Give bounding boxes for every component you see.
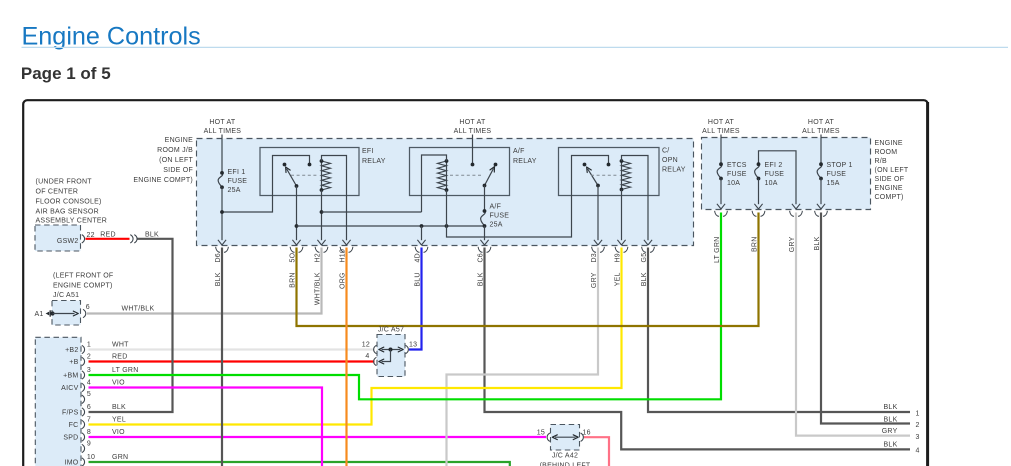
svg-text:13: 13 <box>409 341 417 348</box>
svg-text:+B: +B <box>69 359 78 366</box>
connector J/C A57 pin 4 <box>374 357 377 365</box>
wire WHT from ECM pin 1 to J/C A57 pin 12 <box>89 348 375 350</box>
fuse EFI 1 FUSE 25A <box>218 171 224 189</box>
wire GRN from ECM IMO pin 10 <box>89 462 510 466</box>
connector 5O at J/B bottom edge <box>290 240 303 253</box>
pin label 5O <box>290 252 297 262</box>
svg-text:1: 1 <box>87 341 91 348</box>
svg-text:GSW2: GSW2 <box>57 238 79 245</box>
label C/OPN RELAY <box>662 148 686 174</box>
terminal symbol A1 <box>46 310 51 316</box>
actuation dashed link EFI relay <box>291 174 319 176</box>
svg-text:7: 7 <box>87 416 91 423</box>
wire color label BLK (D6) <box>215 272 222 286</box>
svg-text:+BM: +BM <box>63 373 78 380</box>
svg-text:R/B: R/B <box>875 158 888 165</box>
connector J/C A42 pin 16 <box>581 433 584 441</box>
svg-text:HOT AT: HOT AT <box>708 119 735 126</box>
svg-text:WHT/BLK: WHT/BLK <box>122 306 155 313</box>
internal bus J/C A42 pins 15-16 <box>552 435 578 440</box>
wire ETCS fuse feed <box>720 135 722 165</box>
label J/C A57 <box>378 327 404 334</box>
svg-text:A/F: A/F <box>490 204 502 211</box>
svg-text:Engine Controls: Engine Controls <box>22 22 201 50</box>
svg-text:Page 1 of 5: Page 1 of 5 <box>21 64 111 83</box>
pin number 6 <box>86 304 90 311</box>
label HOT AT ALL TIMES (ETCS fuse) <box>702 119 740 135</box>
label BLK right exit 1 <box>884 404 898 411</box>
pin number 16 <box>583 429 591 436</box>
ECM pin 3 +BM <box>63 367 138 380</box>
title underline rule <box>22 46 1009 48</box>
wire RED from GSW2 <box>86 238 130 240</box>
connector J/C A42 pin 15 <box>547 433 550 441</box>
pin number 22 <box>87 232 95 239</box>
wire RED from ECM pin 2 to J/C A57 pin 4 <box>89 360 375 362</box>
pin label D6 <box>215 253 222 262</box>
svg-text:15: 15 <box>537 429 545 436</box>
svg-text:OF CENTER: OF CENTER <box>36 189 79 196</box>
svg-text:ENGINE COMPT): ENGINE COMPT) <box>133 177 193 184</box>
pin number 15 <box>537 429 545 436</box>
label (UNDER FRONT OF CENTER FLOOR CONSOLE) AIR BAG SENSOR ASSEMBLY CENTER <box>36 179 108 225</box>
wire A/F relay switch common to A/F fuse <box>484 186 486 212</box>
connector BLK at R/B bottom edge <box>815 204 828 217</box>
svg-text:IMO: IMO <box>65 460 79 466</box>
air bag sensor box GSW2 (dashed) <box>35 225 81 251</box>
svg-text:GRY: GRY <box>882 428 898 435</box>
svg-text:4: 4 <box>916 448 920 455</box>
pin label H10 <box>340 249 347 263</box>
wire EFI relay coil bottom to H2 drop <box>320 190 324 240</box>
junction connector J/C A42 (dashed box) <box>551 425 580 451</box>
svg-text:(ON LEFT: (ON LEFT <box>159 157 193 164</box>
svg-text:FUSE: FUSE <box>765 171 785 178</box>
node dot J/C A51 <box>50 311 54 315</box>
wire YEL from H9 to ECM FC pin 7 <box>89 248 622 425</box>
ECM pin 2 +B <box>69 353 127 366</box>
svg-text:8: 8 <box>87 429 91 436</box>
label J/C A42 <box>552 453 578 460</box>
svg-text:(ON LEFT: (ON LEFT <box>875 167 909 174</box>
svg-text:BLK: BLK <box>884 404 898 411</box>
svg-text:4: 4 <box>87 379 91 386</box>
pin label G5 <box>641 253 648 263</box>
connector H10 at J/B bottom edge <box>340 240 353 253</box>
wire BLK from STOP 1 fuse to right exit 2 <box>821 213 910 424</box>
wire BLU from 4D to J/C A57 pin 13 <box>409 248 422 350</box>
svg-text:10A: 10A <box>765 180 778 187</box>
ECM pin 7 FC <box>69 416 126 429</box>
connector C6 at J/B bottom edge <box>478 240 491 253</box>
svg-text:BLK: BLK <box>145 232 159 239</box>
wire ORG from H10 down <box>345 248 347 466</box>
svg-text:12: 12 <box>362 341 370 348</box>
switch arm EFI relay <box>286 167 297 186</box>
svg-text:VIO: VIO <box>112 379 125 386</box>
svg-text:BLK: BLK <box>884 441 898 448</box>
switch arm C/OPN relay <box>587 167 598 186</box>
ECM pin 8 SPD <box>63 429 125 442</box>
junction connector J/C A51 (dashed box) <box>52 301 81 326</box>
wire VIO from ECM AICV pin 4 <box>89 388 323 466</box>
svg-text:4: 4 <box>365 353 369 360</box>
svg-text:ENGINE COMPT): ENGINE COMPT) <box>53 282 113 289</box>
svg-text:VIO: VIO <box>112 429 125 436</box>
wire PNK from J/C A42 pin 16 <box>584 437 609 466</box>
relay box EFI RELAY <box>260 148 359 196</box>
svg-text:HOT AT: HOT AT <box>808 119 835 126</box>
svg-text:ROOM J/B: ROOM J/B <box>157 147 193 154</box>
fuse STOP 1 FUSE 15A <box>817 162 823 204</box>
label GSW2 <box>57 238 79 245</box>
wire VIO from ECM SPD pin 8 to J/C A42 pin 15 <box>89 436 547 438</box>
svg-text:HOT AT: HOT AT <box>459 119 486 126</box>
connector GSW2 pin 22 <box>82 235 85 243</box>
internal arrow J/C A51 <box>53 311 79 316</box>
ECM pin 6 F/PS <box>62 404 126 417</box>
wire LT GRN from ETCS fuse to ECM +BM pin 3 <box>89 213 722 400</box>
label HOT AT ALL TIMES (A/F relay) <box>454 119 492 135</box>
svg-text:5: 5 <box>87 391 91 398</box>
relay block ENGINE ROOM R/B (dashed box) <box>702 138 871 210</box>
svg-text:3: 3 <box>916 434 920 441</box>
connector D6 at J/B bottom edge <box>216 240 229 253</box>
pin number 13 <box>409 341 417 348</box>
label ENGINE ROOM J/B (ON LEFT SIDE OF ENGINE COMPT) <box>133 137 193 184</box>
svg-text:COMPT): COMPT) <box>875 194 904 201</box>
svg-text:6: 6 <box>86 304 90 311</box>
svg-text:RED: RED <box>100 232 116 239</box>
svg-text:ROOM: ROOM <box>875 149 898 156</box>
contact pivot dot EFI relay <box>283 163 287 167</box>
wire color label ORG (H10) <box>340 272 347 289</box>
junction block ENGINE ROOM J/B (dashed box) <box>197 139 694 246</box>
diagram panel frame <box>23 100 928 466</box>
label EFI 1 FUSE 25A <box>228 169 248 194</box>
connector 4D at J/B bottom edge <box>415 240 428 253</box>
net wire EFI switch common rail <box>297 224 485 228</box>
wire A/F relay coil bottom to C/OPN relay feed <box>447 156 611 238</box>
svg-text:LT GRN: LT GRN <box>112 367 139 374</box>
wire color label GRY (D3) <box>591 272 598 288</box>
wire color label YEL (H9) <box>615 272 622 286</box>
wire BLK from D6 down <box>221 248 223 466</box>
svg-text:EFI: EFI <box>362 148 374 155</box>
wire color label LT GRN (R/B) <box>714 237 721 264</box>
junction connector J/C A57 (dashed box) <box>377 335 405 377</box>
connector D3 at J/B bottom edge <box>592 240 605 253</box>
svg-text:A1: A1 <box>34 311 43 318</box>
svg-text:ENGINE: ENGINE <box>875 185 903 192</box>
ECM pin 4 AICV <box>61 379 125 392</box>
connector H9 at J/B bottom edge <box>615 240 628 253</box>
svg-text:FC: FC <box>69 422 79 429</box>
pin label C6 <box>478 253 485 262</box>
wire color label WHT/BLK (H2) <box>315 272 322 305</box>
svg-text:FUSE: FUSE <box>827 171 847 178</box>
label ENGINE ROOM R/B (ON LEFT SIDE OF ENGINE COMPT) <box>875 140 909 201</box>
coil A/F relay <box>438 159 449 192</box>
svg-text:15A: 15A <box>827 180 840 187</box>
svg-text:3: 3 <box>87 367 91 374</box>
pin label 4D <box>415 253 422 262</box>
svg-text:J/C A51: J/C A51 <box>53 292 79 299</box>
svg-text:SIDE OF: SIDE OF <box>875 176 905 183</box>
label A1 <box>34 311 43 318</box>
svg-text:ASSEMBLY CENTER: ASSEMBLY CENTER <box>36 218 108 225</box>
ECM pin 10 IMO <box>65 454 129 466</box>
pin number 4 <box>365 353 369 360</box>
svg-text:RELAY: RELAY <box>362 158 386 165</box>
connector J/C A57 pin 12 <box>374 345 377 353</box>
wire WHT/BLK from H2 to J/C A51 <box>87 248 322 314</box>
svg-text:6: 6 <box>87 404 91 411</box>
label WHT/BLK <box>122 306 155 313</box>
svg-text:C/: C/ <box>662 148 670 155</box>
splice connector on GSW2 wire <box>130 235 137 243</box>
svg-text:10: 10 <box>87 454 95 461</box>
svg-text:+B2: +B2 <box>65 347 78 354</box>
label BLK (GSW2 wire) <box>145 232 159 239</box>
svg-text:AIR BAG SENSOR: AIR BAG SENSOR <box>36 209 99 216</box>
switch common dot EFI relay <box>295 184 299 188</box>
svg-text:OPN: OPN <box>662 157 678 164</box>
wire C/OPN relay coil bottom to H9 drop <box>621 190 623 241</box>
wire BRN from 5O to EFI 2 fuse <box>297 213 759 327</box>
node number 3 right exit <box>916 434 920 441</box>
wire BLK from G5 to right exit 1 <box>648 248 910 413</box>
svg-text:YEL: YEL <box>112 416 126 423</box>
label HOT AT ALL TIMES (STOP 1 fuse) <box>802 119 840 135</box>
ECM pin 1 +B2 <box>65 341 129 354</box>
svg-text:ENGINE: ENGINE <box>165 137 193 144</box>
wire color label GRY (R/B) <box>789 236 796 252</box>
subtitle Page 1 of 5 <box>21 64 111 83</box>
svg-text:EFI 1: EFI 1 <box>228 169 246 176</box>
relay box A/F RELAY <box>410 148 510 196</box>
connector BRN at R/B bottom edge <box>752 204 765 217</box>
svg-text:SPD: SPD <box>63 435 78 442</box>
svg-text:FUSE: FUSE <box>490 213 510 220</box>
svg-text:ETCS: ETCS <box>727 162 747 169</box>
label (BEHIND LEFT <box>540 463 591 466</box>
connector GRY at R/B bottom edge <box>790 204 803 217</box>
wire color label BRN (R/B) <box>752 237 759 253</box>
internal bus J/C A57 pins 12-13 <box>379 347 403 352</box>
svg-text:HOT AT: HOT AT <box>209 119 236 126</box>
label STOP 1 FUSE 15A <box>827 162 853 187</box>
label ETCS FUSE 10A <box>727 162 747 187</box>
connector G5 at J/B bottom edge <box>642 240 655 253</box>
pin number 12 <box>362 341 370 348</box>
label GRY right exit 3 <box>882 428 898 435</box>
contact dot A/F relay <box>494 163 498 167</box>
pin label H2 <box>315 253 322 262</box>
fuse EFI 2 FUSE 10A <box>755 162 761 204</box>
label EFI 2 FUSE 10A <box>765 162 785 187</box>
title Engine Controls <box>22 22 201 50</box>
label BLK right exit 2 <box>884 416 898 423</box>
wire color label BLK (C6) <box>478 272 485 286</box>
coil EFI relay <box>320 159 331 192</box>
svg-text:RED: RED <box>112 353 128 360</box>
svg-text:AICV: AICV <box>61 385 78 392</box>
contact pivot dot C/OPN relay <box>583 163 587 167</box>
connector H2 at J/B bottom edge <box>315 240 328 253</box>
svg-text:ALL TIMES: ALL TIMES <box>204 128 242 135</box>
svg-text:RELAY: RELAY <box>513 158 537 165</box>
actuation dashed link A/F relay <box>450 174 481 176</box>
svg-text:FUSE: FUSE <box>228 178 248 185</box>
wire color label BLK (R/B) <box>814 236 821 250</box>
wire BLK from C6 to right exit 4 <box>485 248 911 450</box>
switch common dot A/F relay <box>483 184 487 188</box>
label A/F RELAY <box>513 148 537 165</box>
wire color label BLK (G5) <box>641 272 648 286</box>
coil C/OPN relay <box>620 159 631 191</box>
relay box C/OPN RELAY <box>559 148 660 196</box>
svg-text:(BEHIND LEFT: (BEHIND LEFT <box>540 463 591 466</box>
pin label H9 <box>615 253 622 262</box>
label RED <box>100 232 116 239</box>
svg-text:FUSE: FUSE <box>727 171 747 178</box>
wire STOP 1 fuse feed <box>820 135 822 165</box>
wire EFI relay coil top to H10 drop <box>322 156 347 241</box>
pin label D3 <box>591 253 598 262</box>
label J/C A51 <box>53 292 79 299</box>
ECM connector box (dashed) <box>35 337 81 466</box>
svg-text:WHT: WHT <box>112 341 129 348</box>
svg-text:16: 16 <box>583 429 591 436</box>
actuation dashed link C/OPN relay <box>591 174 619 176</box>
svg-text:25A: 25A <box>490 222 503 229</box>
wire EFI 2 fuse bridge to GRY drop <box>759 151 797 204</box>
label (LEFT FRONT OF ENGINE COMPT) <box>53 273 113 290</box>
fuse A/F FUSE 25A <box>481 209 487 240</box>
svg-text:SIDE OF: SIDE OF <box>163 167 193 174</box>
svg-text:FLOOR CONSOLE): FLOOR CONSOLE) <box>36 199 102 206</box>
label EFI RELAY <box>362 148 386 165</box>
ECM pin 5 <box>82 391 91 403</box>
node number 2 right exit <box>916 422 920 429</box>
svg-text:10A: 10A <box>727 180 740 187</box>
wire EFI relay switch common to 5O drop <box>295 186 299 240</box>
svg-text:9: 9 <box>87 440 91 447</box>
svg-text:J/C A57: J/C A57 <box>378 327 404 334</box>
wire EFI 1 fuse to D6 drop <box>220 187 224 240</box>
svg-text:25A: 25A <box>228 187 241 194</box>
wire GRY from R/B to right exit 3 <box>796 213 910 436</box>
svg-text:ALL TIMES: ALL TIMES <box>454 128 492 135</box>
wire C/OPN relay coil top to G5 drop <box>622 156 649 241</box>
fuse ETCS FUSE 10A <box>717 162 723 204</box>
connector J/C A51 pin 6 <box>83 309 86 317</box>
svg-text:BLK: BLK <box>884 416 898 423</box>
svg-text:ALL TIMES: ALL TIMES <box>702 128 740 135</box>
internal branch J/C A57 pin 4 <box>379 350 391 364</box>
switch arm A/F relay <box>485 167 495 186</box>
wire color label BRN (5O) <box>290 272 297 288</box>
svg-text:EFI 2: EFI 2 <box>765 162 783 169</box>
wire EFI relay switch feed (from EFI 1 fuse junction up into relay) <box>222 156 311 213</box>
label A/F FUSE 25A <box>490 204 510 229</box>
svg-text:(UNDER FRONT: (UNDER FRONT <box>36 179 93 186</box>
wire GRY from D3 down <box>447 248 599 466</box>
svg-text:ALL TIMES: ALL TIMES <box>802 128 840 135</box>
svg-text:(LEFT FRONT OF: (LEFT FRONT OF <box>53 273 113 280</box>
label HOT AT ALL TIMES (EFI 1 fuse) <box>204 119 242 135</box>
wire 4D tap from common rail <box>421 226 423 240</box>
connector J/C A57 pin 13 <box>406 345 409 353</box>
wire HOT AT ALL TIMES feed into A/F relay <box>471 135 475 167</box>
svg-text:A/F: A/F <box>513 148 525 155</box>
svg-text:2: 2 <box>87 353 91 360</box>
wire A/F relay coil top to net from EFI coil <box>422 155 447 212</box>
svg-text:GRN: GRN <box>112 454 128 461</box>
wire color label BLU (4D) <box>415 272 422 286</box>
switch common dot C/OPN relay <box>596 184 600 188</box>
svg-text:2: 2 <box>916 422 920 429</box>
svg-text:J/C A42: J/C A42 <box>552 453 578 460</box>
wire EFI 1 fuse feed from HOT AT ALL TIMES <box>221 135 223 173</box>
net wire from EFI coil bottom to A/F relay <box>322 211 422 213</box>
wire C/OPN relay switch common to D3 drop <box>597 186 599 241</box>
svg-text:1: 1 <box>916 410 920 417</box>
wire BLK from GSW2 splice to ECM F/PS pin 6 <box>89 239 173 412</box>
connector LT GRN at R/B bottom edge <box>715 204 728 217</box>
node number 4 right exit <box>916 448 920 455</box>
svg-text:ENGINE: ENGINE <box>875 140 903 147</box>
svg-text:F/PS: F/PS <box>62 410 79 417</box>
svg-text:RELAY: RELAY <box>662 167 686 174</box>
label BLK right exit 4 <box>884 441 898 448</box>
svg-text:STOP 1: STOP 1 <box>827 162 853 169</box>
ECM pin 9 <box>82 440 91 452</box>
node number 1 right exit <box>916 410 920 417</box>
svg-text:BLK: BLK <box>112 404 126 411</box>
